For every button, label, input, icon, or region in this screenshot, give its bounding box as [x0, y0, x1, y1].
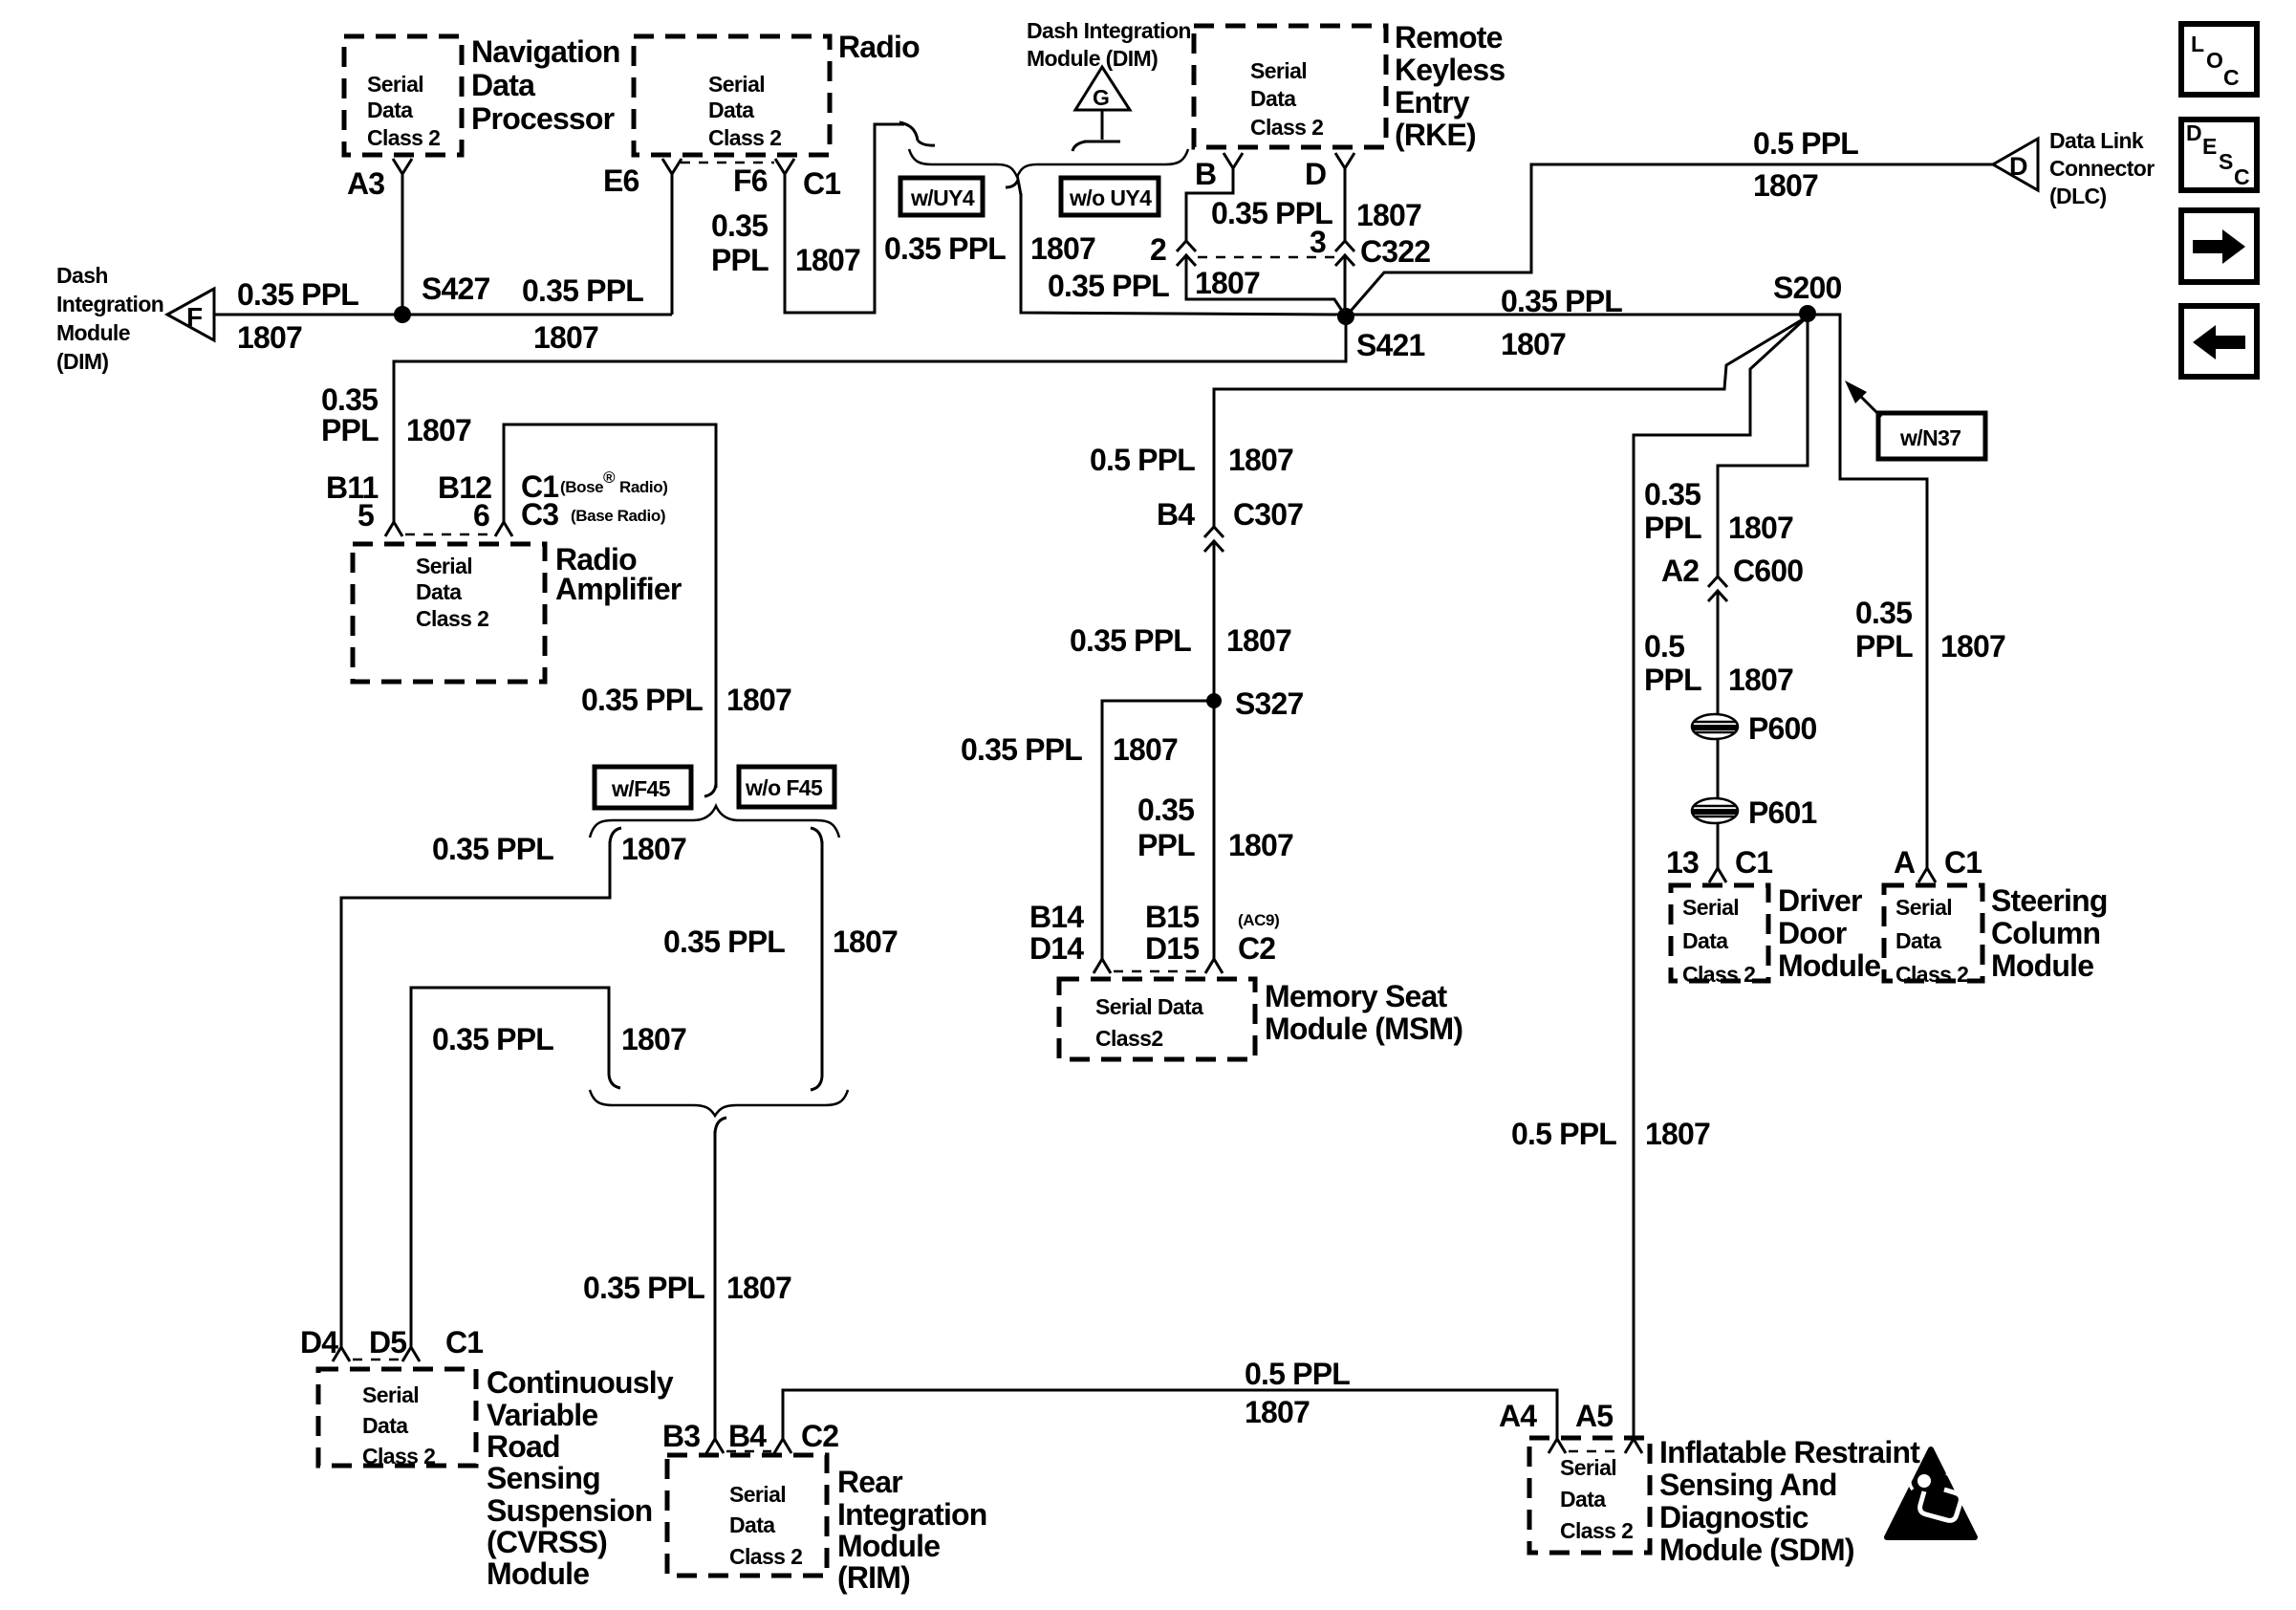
- svg-text:Keyless: Keyless: [1395, 53, 1505, 87]
- svg-text:(Base Radio): (Base Radio): [571, 507, 665, 525]
- svg-text:Variable: Variable: [487, 1398, 597, 1432]
- svg-text:0.35: 0.35: [1644, 477, 1700, 511]
- svg-text:Module (MSM): Module (MSM): [1265, 1012, 1462, 1046]
- svg-text:S327: S327: [1235, 686, 1304, 721]
- svg-text:0.35 PPL: 0.35 PPL: [1048, 269, 1169, 303]
- svg-text:Class 2: Class 2: [729, 1544, 802, 1569]
- svg-text:PPL: PPL: [711, 243, 769, 277]
- svg-text:w/o UY4: w/o UY4: [1069, 185, 1152, 210]
- svg-text:Data: Data: [416, 579, 462, 604]
- wire A3 to S427: [401, 174, 404, 315]
- svg-text:Integration: Integration: [837, 1497, 987, 1532]
- svg-text:3: 3: [1310, 225, 1326, 259]
- wire F6/C1 up-and-over to option brace: [785, 124, 904, 313]
- option box w/N37: [1878, 413, 1985, 459]
- connector Y at D: [1335, 153, 1354, 168]
- svg-text:0.5 PPL: 0.5 PPL: [1511, 1117, 1616, 1151]
- svg-text:1807: 1807: [1753, 168, 1818, 203]
- inline connector chevrons C322 pin3: [1335, 241, 1354, 266]
- svg-text:Connector: Connector: [2049, 156, 2155, 181]
- module CVRSS (dashed box): [318, 1369, 476, 1469]
- wire CVRSS D5 up-over to merge brace: [411, 988, 609, 1347]
- svg-text:Dash: Dash: [56, 263, 108, 288]
- svg-text:Steering: Steering: [1991, 883, 2108, 918]
- svg-text:Data: Data: [1560, 1487, 1606, 1512]
- svg-text:S200: S200: [1773, 271, 1842, 305]
- hook below brace center: [1006, 180, 1021, 195]
- connector Y at D4: [333, 1347, 350, 1361]
- wire E6 down to main line: [671, 174, 674, 315]
- option box w/o F45: [739, 767, 834, 807]
- svg-text:w/N37: w/N37: [1899, 425, 1960, 450]
- module label Dash Integration Module (DIM) left: [56, 263, 163, 374]
- svg-text:0.35 PPL: 0.35 PPL: [961, 732, 1082, 767]
- svg-text:Data: Data: [362, 1413, 408, 1438]
- wire w/F45 path to CVRSS D4: [341, 841, 610, 1347]
- svg-text:C1: C1: [1944, 845, 1982, 880]
- inline connector chevrons C307: [1204, 527, 1224, 552]
- svg-text:D: D: [1305, 157, 1326, 191]
- svg-text:1807: 1807: [1030, 231, 1095, 266]
- svg-text:S421: S421: [1356, 328, 1425, 362]
- svg-text:1807: 1807: [833, 925, 898, 959]
- svg-text:Remote: Remote: [1395, 20, 1503, 54]
- inline connector chevrons C322 pin2: [1177, 241, 1196, 266]
- module Driver Door Module (dashed box): [1671, 885, 1768, 987]
- connector Y at DDM 13: [1709, 868, 1726, 882]
- svg-text:1807: 1807: [1226, 623, 1291, 658]
- wire S421 down-left bus to radio amplifier pin 5: [394, 316, 1346, 522]
- svg-text:Radio): Radio): [619, 478, 667, 496]
- svg-text:(DLC): (DLC): [2049, 184, 2107, 208]
- svg-text:0.5: 0.5: [1644, 629, 1684, 664]
- svg-text:PPL: PPL: [1644, 663, 1701, 697]
- svg-text:0.35 PPL: 0.35 PPL: [1501, 284, 1622, 318]
- svg-text:Module: Module: [487, 1556, 589, 1591]
- svg-text:C1: C1: [1735, 845, 1772, 880]
- wire S200 to SDM A5 (diagonal): [1634, 316, 1808, 1439]
- wire option merge down to main line and to S421: [1021, 193, 1346, 315]
- svg-text:G: G: [1093, 85, 1109, 110]
- svg-text:(CVRSS): (CVRSS): [487, 1525, 607, 1559]
- svg-text:1807: 1807: [237, 320, 302, 355]
- svg-text:0.35 PPL: 0.35 PPL: [237, 277, 358, 312]
- wire w/o F45 path down: [821, 841, 824, 1077]
- svg-text:1807: 1807: [1728, 511, 1793, 545]
- svg-text:L: L: [2191, 32, 2204, 56]
- wire S200 to Driver Door Module: [1718, 316, 1808, 577]
- connector Y at B11/5: [385, 522, 402, 536]
- legend box arrow left: [2181, 306, 2257, 377]
- svg-text:C307: C307: [1233, 497, 1303, 532]
- dashed connector line C322: [1198, 256, 1334, 259]
- module RIM (dashed box): [667, 1455, 827, 1576]
- svg-text:Sensing: Sensing: [487, 1461, 600, 1495]
- svg-text:F: F: [186, 302, 203, 332]
- splice pass-through P600: [1692, 711, 1817, 746]
- svg-text:1807: 1807: [726, 1271, 791, 1305]
- svg-text:B: B: [1195, 157, 1216, 191]
- wire F to S427 main serial data line: [214, 314, 672, 316]
- svg-text:D15: D15: [1145, 931, 1199, 966]
- svg-text:Module: Module: [1991, 948, 2093, 983]
- svg-text:Class 2: Class 2: [367, 125, 440, 150]
- airbag warning symbol: [1887, 1449, 1975, 1537]
- splice pass-through P601: [1692, 795, 1817, 830]
- module label Dash Integration Module (DIM) top: [1027, 18, 1191, 71]
- svg-text:Module: Module: [1778, 948, 1880, 983]
- svg-text:1807: 1807: [1113, 732, 1178, 767]
- module label Data Link Connector (DLC): [2049, 128, 2155, 208]
- connector D triangle (to DLC): [1993, 139, 2038, 190]
- svg-text:1807: 1807: [1940, 629, 2005, 664]
- svg-text:C322: C322: [1360, 234, 1430, 269]
- svg-text:Serial: Serial: [1560, 1455, 1616, 1480]
- svg-text:Class 2: Class 2: [416, 606, 488, 631]
- svg-text:A2: A2: [1661, 554, 1699, 588]
- pin C3 (Base Radio): [521, 497, 665, 532]
- svg-text:Processor: Processor: [471, 101, 615, 136]
- svg-text:D4: D4: [300, 1325, 338, 1360]
- wire S327 branch to MSM B14: [1102, 701, 1214, 959]
- wire RIM B4 to SDM A4: [783, 1390, 1557, 1439]
- svg-text:A4: A4: [1499, 1399, 1537, 1433]
- splice S200: [1773, 271, 1842, 322]
- hook at right split (w/o F45 path): [811, 828, 822, 843]
- svg-text:(Bose: (Bose: [560, 478, 603, 496]
- wire S421 to DLC: [1346, 164, 1993, 316]
- label CVRSS Module: [487, 1365, 674, 1591]
- wire P601 to DDM pin 13: [1717, 823, 1720, 868]
- svg-text:0.35: 0.35: [1137, 793, 1194, 827]
- connector Y at B: [1224, 153, 1243, 168]
- module Radio Amplifier (dashed box): [353, 544, 545, 682]
- module Steering Column Module (dashed box): [1884, 885, 1982, 987]
- svg-text:Module: Module: [837, 1529, 940, 1563]
- svg-text:E6: E6: [603, 163, 639, 198]
- pin C1 (Bose Radio): [521, 468, 667, 504]
- svg-text:C600: C600: [1733, 554, 1803, 588]
- wire RKE D down to S421: [1344, 168, 1347, 316]
- svg-text:0.5 PPL: 0.5 PPL: [1245, 1357, 1350, 1391]
- svg-text:w/UY4: w/UY4: [910, 185, 975, 210]
- dashed connector line B14-B15: [1114, 970, 1202, 973]
- svg-text:Navigation: Navigation: [471, 34, 620, 69]
- connector Y at B14/D14: [1094, 959, 1111, 973]
- svg-text:Serial: Serial: [1250, 58, 1307, 83]
- module Radio (dashed box): [634, 36, 830, 155]
- svg-text:PPL: PPL: [321, 413, 379, 447]
- svg-text:Amplifier: Amplifier: [555, 572, 682, 606]
- label Radio Amplifier: [555, 542, 682, 606]
- svg-text:C1: C1: [803, 166, 840, 201]
- svg-text:2: 2: [1150, 232, 1166, 267]
- svg-text:Class 2: Class 2: [708, 125, 781, 150]
- svg-text:B14: B14: [1029, 900, 1084, 934]
- hook at bottom of w/o F45 wire: [811, 1077, 822, 1090]
- svg-text:F6: F6: [733, 163, 768, 198]
- connector Y at B15/D15: [1205, 959, 1223, 973]
- svg-text:C1: C1: [445, 1325, 483, 1360]
- connector Y at B3: [706, 1439, 724, 1453]
- connector G triangle (from DIM): [1075, 67, 1130, 110]
- svg-text:1807: 1807: [406, 413, 471, 447]
- label Rear Integration Module (RIM): [837, 1465, 987, 1595]
- svg-text:B4: B4: [1157, 497, 1195, 532]
- wire S200 to MSM (diagonal + horizontal): [1214, 316, 1808, 527]
- svg-text:1807: 1807: [621, 1022, 686, 1056]
- svg-text:0.35 PPL: 0.35 PPL: [522, 273, 643, 308]
- svg-text:C2: C2: [801, 1419, 838, 1453]
- svg-text:Class 2: Class 2: [1560, 1518, 1633, 1543]
- connector Y at A4: [1549, 1439, 1566, 1453]
- wire C307 to S327: [1213, 541, 1216, 701]
- svg-text:13: 13: [1666, 845, 1699, 880]
- svg-text:Dash Integration: Dash Integration: [1027, 18, 1191, 43]
- connector Y at A3: [393, 159, 412, 174]
- svg-text:D5: D5: [369, 1325, 406, 1360]
- svg-text:w/o F45: w/o F45: [745, 775, 823, 800]
- svg-text:S: S: [2219, 149, 2233, 174]
- legend box DESC: [2181, 120, 2257, 190]
- label Remote Keyless Entry (RKE): [1395, 20, 1505, 152]
- dashed connector line D4-D5: [353, 1359, 400, 1361]
- svg-text:1807: 1807: [1245, 1395, 1310, 1429]
- svg-text:5: 5: [357, 498, 374, 533]
- arrow from w/N37 to wire: [1859, 395, 1881, 417]
- wire S327 down to MSM B15: [1213, 701, 1216, 959]
- hook at bottom of D5 merge wire: [609, 1075, 620, 1088]
- svg-text:0.35 PPL: 0.35 PPL: [663, 925, 785, 959]
- svg-text:Data: Data: [367, 98, 413, 122]
- svg-text:(RKE): (RKE): [1395, 118, 1476, 152]
- wire P600 to P601: [1717, 739, 1720, 799]
- svg-text:6: 6: [473, 498, 489, 533]
- dashed connector line B11-B12: [405, 533, 492, 536]
- option split brace (w/F45 vs w/o F45): [590, 806, 839, 838]
- svg-text:D14: D14: [1029, 931, 1084, 966]
- svg-text:PPL: PPL: [1644, 511, 1701, 545]
- wire C600 to P600: [1717, 591, 1720, 715]
- svg-text:Inflatable Restraint: Inflatable Restraint: [1659, 1435, 1920, 1469]
- connector Y at D5: [402, 1347, 420, 1361]
- svg-text:Module (SDM): Module (SDM): [1659, 1533, 1854, 1567]
- connector Y at E6: [662, 159, 682, 174]
- svg-text:Memory Seat: Memory Seat: [1265, 979, 1448, 1013]
- svg-text:C: C: [2234, 164, 2249, 189]
- svg-text:Serial: Serial: [367, 72, 423, 97]
- wire G stem: [1072, 110, 1120, 151]
- svg-text:A: A: [1894, 845, 1916, 880]
- svg-text:Data: Data: [1250, 86, 1296, 111]
- svg-text:(AC9): (AC9): [1238, 911, 1279, 929]
- connector Y at A5: [1625, 1439, 1642, 1453]
- svg-text:Module (DIM): Module (DIM): [1027, 46, 1158, 71]
- svg-text:1807: 1807: [1195, 266, 1260, 300]
- svg-text:1807: 1807: [621, 832, 686, 866]
- svg-text:0.35 PPL: 0.35 PPL: [1070, 623, 1191, 658]
- option box w/o UY4: [1061, 178, 1159, 215]
- svg-text:Rear: Rear: [837, 1465, 902, 1499]
- svg-text:Road: Road: [487, 1429, 560, 1464]
- svg-text:0.5 PPL: 0.5 PPL: [1753, 126, 1858, 161]
- svg-text:Column: Column: [1991, 916, 2100, 950]
- svg-text:0.35: 0.35: [1855, 596, 1912, 630]
- inline connector chevrons C600: [1708, 577, 1727, 601]
- splice S327: [1206, 686, 1304, 721]
- svg-text:(RIM): (RIM): [837, 1560, 910, 1595]
- svg-text:P601: P601: [1748, 795, 1817, 830]
- module MSM (dashed box): [1059, 979, 1255, 1059]
- svg-text:Serial: Serial: [416, 554, 472, 578]
- label Navigation Data Processor: [471, 34, 620, 136]
- svg-text:Data Link: Data Link: [2049, 128, 2144, 153]
- splice S427: [394, 272, 490, 323]
- connector Y at B12/6: [495, 522, 512, 536]
- legend box arrow right: [2181, 210, 2257, 282]
- svg-text:Serial: Serial: [708, 72, 765, 97]
- svg-text:1807: 1807: [1728, 663, 1793, 697]
- svg-text:Data: Data: [471, 68, 535, 102]
- svg-text:Serial: Serial: [1895, 895, 1952, 920]
- connector Y at B4: [774, 1439, 791, 1453]
- module Remote Keyless Entry (dashed box): [1194, 26, 1386, 147]
- svg-text:0.35 PPL: 0.35 PPL: [884, 231, 1006, 266]
- svg-text:Class 2: Class 2: [1895, 962, 1968, 987]
- hook below merge brace center: [715, 1118, 726, 1133]
- svg-text:0.35 PPL: 0.35 PPL: [432, 832, 553, 866]
- label Memory Seat Module (MSM): [1265, 979, 1462, 1046]
- label Steering Column Module: [1991, 883, 2108, 983]
- svg-text:A5: A5: [1575, 1399, 1613, 1433]
- option merge brace (to RIM B3): [590, 1090, 848, 1116]
- svg-text:0.35 PPL: 0.35 PPL: [583, 1271, 704, 1305]
- dashed connector line B3-B4: [726, 1450, 771, 1453]
- svg-text:C: C: [2223, 65, 2239, 90]
- svg-text:Serial: Serial: [729, 1482, 786, 1507]
- svg-text:Module: Module: [56, 320, 130, 345]
- svg-text:1807: 1807: [1645, 1117, 1710, 1151]
- svg-text:(DIM): (DIM): [56, 349, 108, 374]
- svg-text:C2: C2: [1238, 931, 1275, 966]
- option box w/F45: [595, 767, 691, 808]
- svg-text:Continuously: Continuously: [487, 1365, 674, 1400]
- svg-text:D: D: [2009, 152, 2028, 181]
- wire S200 to Steering Column Module: [1808, 315, 1927, 868]
- svg-text:Data: Data: [708, 98, 754, 122]
- wire B12/6 up-over-down to w/F45 brace: [504, 424, 716, 788]
- svg-text:0.35: 0.35: [711, 208, 768, 243]
- svg-text:w/F45: w/F45: [611, 776, 671, 801]
- svg-text:1807: 1807: [795, 243, 860, 277]
- svg-text:Door: Door: [1778, 916, 1847, 950]
- wire RKE B to connector C322 pin 2: [1186, 168, 1233, 242]
- module SDM (dashed box): [1529, 1438, 1650, 1553]
- svg-text:Data: Data: [729, 1512, 775, 1537]
- connector Y at SCM A: [1918, 868, 1936, 882]
- svg-text:Data: Data: [1895, 928, 1941, 953]
- svg-text:Class 2: Class 2: [362, 1444, 435, 1469]
- svg-text:Class 2: Class 2: [1250, 115, 1323, 140]
- connector Y at F6: [775, 159, 794, 174]
- svg-text:Radio: Radio: [838, 30, 920, 64]
- svg-text:Data: Data: [1682, 928, 1728, 953]
- svg-text:B3: B3: [662, 1419, 700, 1453]
- option box w/UY4: [900, 178, 983, 215]
- svg-text:1807: 1807: [1356, 198, 1421, 232]
- svg-text:A3: A3: [347, 166, 384, 201]
- svg-text:S427: S427: [422, 272, 490, 306]
- wire chevron2 down to S421: [1186, 255, 1346, 316]
- svg-text:1807: 1807: [726, 683, 791, 717]
- svg-text:Diagnostic: Diagnostic: [1659, 1500, 1809, 1534]
- dashed connector line A4-A5: [1569, 1450, 1622, 1453]
- svg-text:1807: 1807: [533, 320, 598, 355]
- wire merge brace down to RIM B3: [714, 1131, 717, 1439]
- dashed connector line E6-F6: [681, 162, 774, 164]
- svg-text:®: ®: [603, 468, 616, 487]
- svg-text:Class2: Class2: [1095, 1026, 1163, 1051]
- svg-text:Sensing And: Sensing And: [1659, 1468, 1837, 1502]
- svg-text:Suspension: Suspension: [487, 1493, 652, 1528]
- connector F triangle (to DIM): [167, 289, 214, 340]
- legend box LOC: [2181, 24, 2257, 95]
- wire S421 to S200: [1346, 314, 1808, 316]
- svg-text:Serial Data: Serial Data: [1095, 994, 1203, 1019]
- option jump hook (radio C1 side): [899, 122, 935, 145]
- svg-text:P600: P600: [1748, 711, 1817, 746]
- svg-text:C3: C3: [521, 497, 558, 532]
- svg-text:1807: 1807: [1228, 828, 1293, 862]
- svg-text:1807: 1807: [1501, 327, 1566, 361]
- option merge brace (w/UY4 vs w/o UY4): [909, 149, 1188, 177]
- svg-text:B4: B4: [728, 1419, 767, 1453]
- splice S421: [1337, 308, 1425, 362]
- svg-text:0.5 PPL: 0.5 PPL: [1090, 443, 1195, 477]
- svg-text:1807: 1807: [1228, 443, 1293, 477]
- svg-text:Class 2: Class 2: [1682, 962, 1755, 987]
- svg-text:0.35 PPL: 0.35 PPL: [581, 683, 703, 717]
- svg-text:Serial: Serial: [1682, 895, 1739, 920]
- svg-text:PPL: PPL: [1855, 629, 1913, 664]
- svg-text:E: E: [2202, 134, 2217, 159]
- svg-text:O: O: [2206, 48, 2222, 73]
- svg-text:B15: B15: [1145, 900, 1199, 934]
- svg-text:0.35: 0.35: [321, 382, 378, 417]
- label Inflatable Restraint Sensing And Diagnostic Module (SDM): [1659, 1435, 1920, 1567]
- svg-text:Driver: Driver: [1778, 883, 1862, 918]
- svg-text:0.35 PPL: 0.35 PPL: [432, 1022, 553, 1056]
- svg-text:Integration: Integration: [56, 292, 163, 316]
- module Navigation Data Processor (dashed box): [344, 36, 462, 155]
- label Driver Door Module: [1778, 883, 1880, 983]
- svg-text:PPL: PPL: [1137, 828, 1195, 862]
- hook above F45 brace center: [704, 784, 716, 796]
- svg-text:Entry: Entry: [1395, 85, 1470, 120]
- svg-text:D: D: [2186, 120, 2201, 145]
- hook at left split (w/F45 path): [610, 828, 621, 843]
- svg-text:Serial: Serial: [362, 1382, 419, 1407]
